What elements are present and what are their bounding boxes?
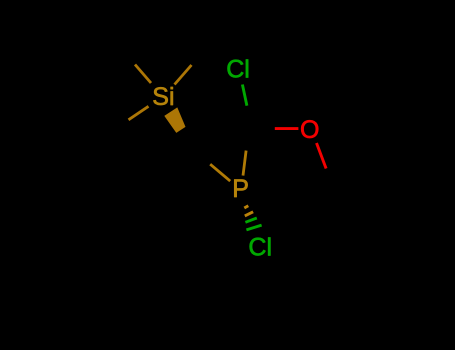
- svg-text:Si: Si: [152, 83, 174, 111]
- svg-text:Cl: Cl: [248, 234, 272, 262]
- svg-text:Cl: Cl: [226, 56, 250, 84]
- svg-text:O: O: [300, 116, 319, 144]
- svg-text:P: P: [232, 175, 249, 203]
